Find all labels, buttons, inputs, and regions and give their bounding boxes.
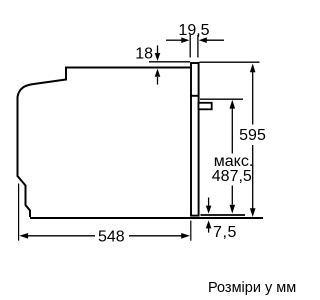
svg-text:487,5: 487,5 [212, 168, 252, 185]
door bottom level strip (extension line right of door) [201, 214, 246, 216]
svg-text:Розміри у мм: Розміри у мм [208, 280, 296, 296]
oven body outline [18, 68, 191, 218]
dimension 18 (arrows + label) [135, 46, 160, 85]
dimension 19,5 (extension lines, arrows, label) [166, 22, 224, 58]
svg-text:18: 18 [135, 46, 153, 63]
dimension 7,5 (arrows + label) [206, 198, 237, 242]
svg-text:7,5: 7,5 [213, 224, 237, 241]
svg-text:595: 595 [239, 127, 266, 144]
svg-text:19,5: 19,5 [178, 22, 209, 39]
body bottom line [30, 217, 263, 219]
dimension 595 (extension line, dim line, arrows, label) [200, 62, 266, 217]
oven door panel [190, 63, 200, 216]
dimension макс. 487,5 (extension line, dim line, arrows, labels) [200, 99, 253, 213]
dimension 548 (extension lines, dim line, arrows, label) [19, 184, 191, 246]
door handle [199, 103, 212, 110]
door top level line (extension to left for 18 dim) [149, 61, 190, 63]
svg-text:548: 548 [98, 229, 125, 246]
